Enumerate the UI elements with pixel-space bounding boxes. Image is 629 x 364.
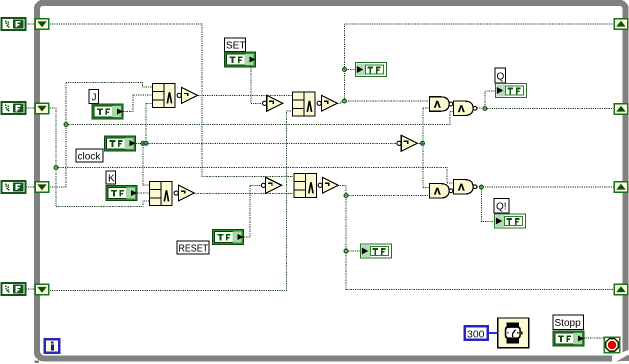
loop border bottom-left corner details (35, 353, 44, 364)
junction upper NAND output (483, 107, 487, 111)
shift register tunnel 3 left (35, 182, 49, 193)
junction clock down (141, 141, 145, 145)
wire c3 net down to indicator and tunnel4R (346, 196, 614, 290)
control clock (105, 136, 136, 151)
junction top indicator branch (343, 68, 347, 72)
junction c3 output (344, 194, 348, 198)
NOT gate for SET (263, 95, 283, 111)
wire tunnel1L to c3 top input (50, 24, 294, 177)
wire tunnel2L feedback to c2k bottom input (50, 108, 149, 206)
junction clock up (144, 141, 148, 145)
svg-text:SET: SET (226, 41, 245, 52)
wire 300 to wait timer (blue) (488, 332, 498, 334)
label Q (495, 68, 506, 83)
indicator TF bottom (unlabeled) (361, 244, 392, 258)
numeric constant 300 (465, 326, 488, 340)
label RESET (177, 241, 209, 255)
wire clock NOT output branches (417, 142, 422, 144)
wire c2 net up to indicator and tunnel1R (345, 24, 614, 101)
wire upper NAND junction to tunnel2R (485, 108, 613, 110)
NOT gate for RESET (261, 177, 281, 193)
shift register tunnel 4 left (35, 284, 49, 295)
NAND gate upper 2 (454, 101, 477, 115)
junction dot A (64, 123, 68, 127)
compound AND c2 (master latch top) (293, 92, 316, 116)
wire tunnel3L feedback to c1 top input (50, 83, 152, 188)
wire c3-not output to lower NAND bottom input (338, 185, 429, 195)
control J (92, 104, 123, 119)
compound AND c3 (master latch bottom) (294, 174, 317, 198)
NAND gate upper 1 (430, 97, 453, 111)
wire tunnel4L feedback to c2 bottom input (50, 111, 292, 290)
wire c2k output to c3 bottom input (195, 192, 294, 194)
boolean constant F1 (2, 18, 26, 30)
wire lower NAND junction to Q! indicator (481, 187, 494, 221)
wire lower NAND output stub (477, 186, 480, 188)
wire F4 to tunnel4L (26, 288, 34, 290)
svg-text:RESET: RESET (179, 244, 209, 255)
control Stopp (553, 331, 584, 346)
junction lower NAND output (480, 185, 484, 189)
indicator Q (496, 84, 527, 98)
svg-text:Q: Q (497, 72, 505, 83)
label Stopp (553, 315, 584, 330)
wait ms timer function (498, 318, 529, 348)
boolean constant F3 (2, 181, 26, 193)
NOT gate after c3 (318, 177, 338, 193)
boolean constant F2 (2, 102, 26, 114)
wire SET control to SET NOT gate (251, 68, 262, 104)
wire K control to c2k mid input (138, 192, 150, 194)
shift register tunnel 4 right (614, 284, 628, 295)
svg-text:300: 300 (467, 328, 485, 340)
junction dot B (54, 166, 58, 170)
shift register tunnel 2 right (614, 104, 628, 115)
shift register tunnel 2 left (35, 103, 49, 114)
wire F3 to tunnel3L (26, 186, 34, 188)
shift register tunnel 1 right (614, 19, 628, 30)
junction bottom indicator branch (344, 249, 348, 253)
NOT gate after c2k (174, 185, 194, 201)
wire branch into top TF indicator (345, 69, 356, 71)
svg-text:K: K (108, 174, 115, 185)
svg-text:Stopp: Stopp (555, 318, 582, 329)
label clock (76, 149, 103, 163)
svg-text:Q!: Q! (496, 202, 507, 213)
control K (106, 186, 137, 201)
wire inverted clock into upper NAND bottom (423, 107, 429, 109)
NAND gate lower 1 (430, 184, 453, 198)
wire clock line to NOT gate (136, 142, 397, 144)
shift register tunnel 1 left (35, 19, 49, 30)
label SET (225, 38, 246, 52)
loop iteration terminal i (45, 339, 60, 353)
wire clock branch down to c2k top input (143, 143, 149, 185)
loop border bottom-right chamfer (612, 350, 629, 362)
wire Stopp control to loop condition (585, 337, 605, 339)
indicator Q! (495, 214, 526, 228)
NAND gate lower 2 (454, 180, 477, 194)
junction c2 output (343, 99, 347, 103)
junction inverted clock (421, 141, 425, 145)
compound AND c1 (J path) (153, 84, 176, 108)
NOT gate after c2 (317, 95, 337, 111)
wire F2 to tunnel2L (26, 107, 34, 109)
wire J control to c1 mid input (124, 95, 153, 111)
NOT gate for clock (397, 135, 417, 151)
label J (89, 90, 99, 104)
wire inverted clock vertical (422, 108, 424, 188)
loop condition stop terminal (604, 337, 620, 352)
wire c1 output to c2 top input (198, 94, 292, 96)
compound AND c2k (K path) (150, 182, 173, 206)
wire inverted clock into lower NAND top (423, 187, 429, 189)
wire lower NAND junction to tunnel3R (481, 186, 613, 188)
wire c2-not output to upper NAND and up (338, 101, 430, 103)
wire clock branch up to c1 bottom input (146, 104, 152, 144)
shift register tunnel 3 right (614, 182, 628, 193)
NOT gate after c1 (177, 87, 197, 103)
svg-text:clock: clock (78, 152, 102, 163)
boolean constant F4 (2, 283, 26, 295)
wire upper NAND output stub (477, 107, 483, 109)
label Q! (494, 199, 509, 214)
wire F1 to tunnel1L (26, 23, 34, 25)
wire RESET control to RESET NOT gate (244, 185, 261, 237)
label K (106, 171, 116, 185)
wire upper NAND junction to Q indicator (485, 91, 495, 109)
wire line C: Q feedback to lower NAND pair (56, 168, 453, 184)
svg-text:J: J (92, 93, 97, 104)
indicator TF top (unlabeled) (356, 63, 387, 77)
wire line A: Qbar feedback to upper NAND pair (66, 111, 453, 124)
wire branch into bottom TF indicator (346, 250, 360, 252)
control SET (225, 52, 256, 67)
control RESET (213, 230, 244, 245)
